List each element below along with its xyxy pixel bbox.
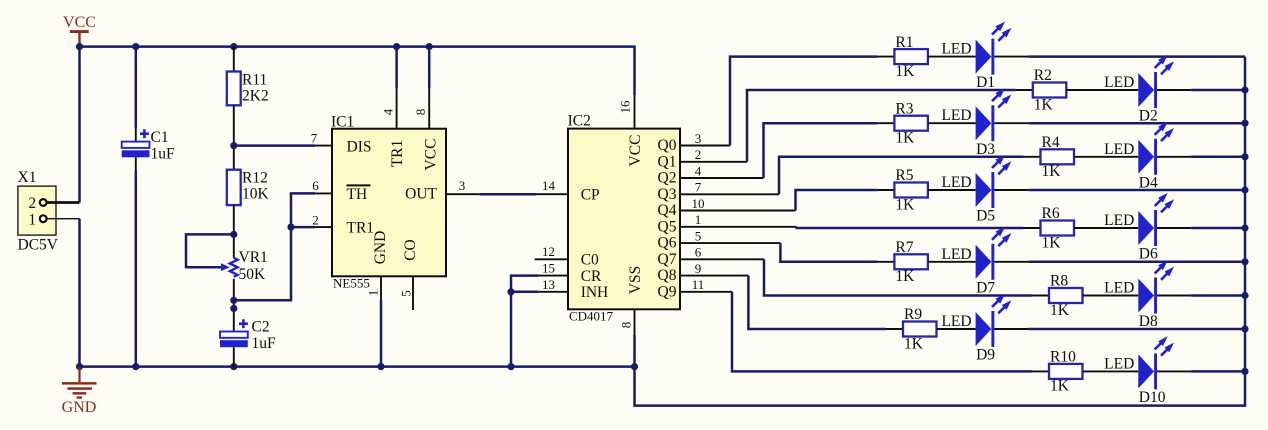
wire R3 net riser — [764, 123, 878, 178]
wire D1 cathode to right rail — [994, 56, 1028, 58]
svg-text:VR1: VR1 — [239, 249, 268, 266]
wire IC1 pin5 CO stub — [412, 276, 414, 310]
svg-text:GND: GND — [62, 399, 97, 416]
wire IC2 pin 10 (Q4) — [680, 210, 796, 212]
resistor R2 1K — [1033, 67, 1067, 113]
LED D10 — [1104, 336, 1174, 406]
wire IC2 pin 5 (Q6) — [680, 242, 780, 244]
wire VCC top rail — [80, 47, 635, 95]
svg-text:R9: R9 — [904, 306, 922, 323]
wire IC2 pin12 C0 stub — [535, 258, 568, 260]
svg-text:R11: R11 — [242, 71, 267, 88]
svg-text:CO: CO — [402, 239, 419, 261]
junction right rail row 9 — [1241, 325, 1248, 332]
svg-text:Q9: Q9 — [658, 283, 677, 300]
svg-text:9: 9 — [695, 261, 702, 276]
pin 1 of X1 — [40, 215, 47, 222]
svg-text:2K2: 2K2 — [242, 87, 269, 104]
svg-text:7: 7 — [695, 180, 702, 195]
potentiometer VR1 50K — [221, 249, 268, 283]
svg-text:1: 1 — [695, 212, 702, 227]
resistor R3 1K — [894, 100, 928, 146]
wire X1 pin1 down to ground rail — [78, 219, 81, 367]
resistor R12 10K — [227, 170, 270, 206]
svg-text:IC2: IC2 — [568, 113, 591, 130]
svg-text:LED: LED — [1104, 355, 1134, 372]
wire D10 cathode to right rail — [1157, 370, 1191, 372]
svg-text:LED: LED — [941, 41, 971, 58]
svg-text:R10: R10 — [1050, 349, 1076, 366]
wire IC2 pin 3 (Q0) — [680, 145, 730, 147]
wire X1 pin1 to GND rail — [47, 218, 80, 220]
junction pin8 top — [426, 43, 433, 50]
svg-text:3: 3 — [459, 178, 466, 193]
junction IC2 VSS pin — [631, 363, 638, 370]
svg-text:NE555: NE555 — [333, 275, 370, 290]
junction right rail row 5 — [1241, 186, 1248, 193]
wire R9 net riser — [748, 276, 886, 329]
LED D7 — [941, 227, 1011, 297]
resistor R9 1K — [903, 306, 937, 352]
wire R4 net riser — [779, 157, 1024, 195]
svg-text:R4: R4 — [1042, 134, 1060, 151]
wire TR node to IC1 pin2/pin6 — [234, 227, 315, 300]
junction pin4 top — [393, 43, 400, 50]
wire IC2 pin 4 (Q2) — [680, 177, 764, 179]
svg-text:Q0: Q0 — [658, 137, 677, 154]
wire R2 net riser — [747, 90, 1016, 162]
junction right rail row 10 — [1241, 368, 1248, 375]
svg-text:Q6: Q6 — [658, 235, 677, 252]
wire VR1 wiper loop — [186, 234, 234, 267]
svg-text:1K: 1K — [1050, 378, 1070, 395]
wire R9 to D9 — [937, 328, 976, 330]
junction CR/INH rail — [507, 363, 514, 370]
svg-text:X1: X1 — [18, 169, 37, 186]
wire R10 net riser — [732, 292, 1032, 372]
svg-text:3: 3 — [695, 131, 702, 146]
wire IC2 pin13 INH — [538, 291, 568, 293]
svg-text:13: 13 — [542, 277, 555, 292]
svg-text:1K: 1K — [895, 196, 915, 213]
svg-text:D9: D9 — [976, 347, 995, 364]
wire R4 to D4 — [1074, 156, 1138, 158]
wire IC2 pin15 CR — [538, 275, 568, 277]
svg-text:2: 2 — [695, 147, 702, 162]
wire R6 to D6 — [1074, 227, 1138, 229]
svg-text:2: 2 — [312, 212, 319, 227]
svg-text:50K: 50K — [239, 266, 267, 283]
svg-text:D7: D7 — [976, 279, 995, 296]
svg-text:LED: LED — [1104, 74, 1134, 91]
svg-text:15: 15 — [542, 261, 555, 276]
wire D7 cathode to right rail — [994, 261, 1028, 263]
junction TR node lower — [230, 305, 237, 312]
junction right rail row 4 — [1241, 153, 1248, 160]
wire D2 cathode to right rail — [1157, 89, 1191, 91]
svg-text:1K: 1K — [1050, 302, 1070, 319]
svg-text:R2: R2 — [1034, 67, 1052, 84]
wire IC2 pin 11 (Q9) — [680, 291, 732, 293]
svg-text:LED: LED — [1104, 212, 1134, 229]
wire D8 cathode to right rail — [1157, 295, 1191, 297]
svg-text:D5: D5 — [976, 208, 995, 225]
svg-text:1uF: 1uF — [151, 145, 176, 162]
wire D9 cathode to right rail — [994, 328, 1028, 330]
svg-text:1K: 1K — [1042, 163, 1062, 180]
LED D2 — [1104, 55, 1174, 125]
junction right rail row 2 — [1241, 86, 1248, 93]
svg-text:Q1: Q1 — [658, 153, 677, 170]
resistor R4 1K — [1041, 134, 1075, 180]
svg-text:1K: 1K — [904, 335, 924, 352]
wire VR1 to C2 — [233, 279, 235, 332]
svg-text:VCC: VCC — [63, 14, 96, 31]
svg-text:7: 7 — [311, 131, 318, 146]
svg-text:1K: 1K — [895, 268, 915, 285]
svg-text:TH: TH — [347, 186, 368, 203]
LED D1 — [941, 22, 1011, 92]
junction VCC left — [76, 43, 83, 50]
svg-text:R12: R12 — [242, 170, 268, 187]
wire R1 net riser — [730, 57, 877, 146]
svg-text:1K: 1K — [895, 63, 915, 80]
wire R7 net riser — [780, 243, 877, 262]
svg-text:VCC: VCC — [423, 139, 440, 171]
svg-text:LED: LED — [1104, 280, 1134, 297]
wire D3 cathode to right rail — [994, 122, 1028, 124]
svg-text:D10: D10 — [1139, 389, 1166, 406]
wire VCC left rail down to X1 pin2 — [78, 47, 81, 203]
svg-text:LED: LED — [941, 174, 971, 191]
wire IC2 pin 2 (Q1) — [680, 161, 747, 163]
resistor R7 1K — [894, 239, 928, 285]
wire R12 to VR1 — [233, 205, 235, 258]
svg-text:D3: D3 — [976, 141, 995, 158]
wire R11 to R12, node DIS — [233, 105, 235, 169]
svg-text:1: 1 — [28, 211, 36, 228]
LED D6 — [1104, 193, 1174, 263]
junction C2 bottom — [230, 363, 237, 370]
svg-text:16: 16 — [618, 100, 633, 114]
svg-text:Q7: Q7 — [658, 251, 677, 268]
svg-text:DIS: DIS — [347, 138, 372, 155]
wire IC1 pin4 to VCC rail — [395, 47, 398, 88]
svg-text:8: 8 — [413, 109, 428, 116]
svg-text:1K: 1K — [1042, 234, 1062, 251]
svg-text:C2: C2 — [252, 319, 270, 336]
svg-text:4: 4 — [695, 163, 702, 178]
resistor R8 1K — [1049, 273, 1083, 319]
junction R11 top — [230, 43, 237, 50]
svg-text:5: 5 — [399, 290, 414, 297]
svg-text:6: 6 — [695, 245, 702, 260]
svg-text:VCC: VCC — [627, 135, 644, 167]
wire GND bottom rail — [80, 365, 635, 368]
wire IC1 pin1 GND — [380, 276, 382, 300]
svg-text:C1: C1 — [151, 129, 169, 146]
wire IC2 pin8 VSS to ground rail — [634, 309, 636, 335]
svg-text:1K: 1K — [895, 130, 915, 147]
LED D9 — [941, 294, 1011, 364]
op-amp timer IC1 NE555 body — [331, 114, 446, 291]
wire R11 top lead — [233, 47, 235, 72]
counter IC2 CD4017 body — [568, 113, 680, 324]
svg-text:DC5V: DC5V — [18, 237, 59, 254]
svg-text:10: 10 — [692, 196, 705, 211]
svg-text:11: 11 — [692, 277, 705, 292]
resistor R1 1K — [894, 34, 928, 80]
svg-text:TR1: TR1 — [347, 220, 375, 237]
junction right rail row 6 — [1241, 224, 1248, 231]
connector X1 DC5V — [18, 169, 59, 254]
junction DIS node — [230, 142, 237, 149]
LED D4 — [1104, 122, 1174, 192]
wire R6 net riser — [797, 227, 1024, 228]
svg-text:5: 5 — [695, 229, 702, 244]
wire R3 to D3 — [928, 122, 976, 124]
junction IC1 GND pin — [377, 363, 384, 370]
svg-text:1uF: 1uF — [252, 335, 277, 352]
svg-text:R1: R1 — [895, 34, 913, 51]
junction right rail row 8 — [1241, 292, 1248, 299]
junction TR node upper — [230, 297, 237, 304]
svg-text:D6: D6 — [1139, 246, 1158, 263]
resistor R6 1K — [1041, 205, 1075, 251]
resistor R5 1K — [894, 167, 928, 213]
ground symbol GND — [62, 367, 97, 416]
svg-text:C0: C0 — [581, 252, 599, 269]
LED D3 — [941, 88, 1011, 158]
svg-text:R3: R3 — [895, 100, 913, 117]
svg-text:LED: LED — [941, 246, 971, 263]
wire IC2 pin 1 (Q5) — [680, 226, 797, 228]
wire TH branch to IC1 pin6 — [291, 193, 315, 227]
VCC power symbol — [63, 14, 96, 45]
junction CR/INH — [507, 288, 514, 295]
wire R8 to D8 — [1083, 295, 1139, 297]
svg-text:8: 8 — [618, 322, 633, 329]
svg-text:LED: LED — [1104, 141, 1134, 158]
LED D8 — [1104, 260, 1174, 330]
junction right rail row 3 — [1241, 120, 1248, 127]
wire D6 cathode to right rail — [1157, 227, 1191, 229]
wire LED return right rail — [635, 57, 1246, 406]
svg-text:CR: CR — [581, 268, 602, 285]
wire R2 to D2 — [1066, 89, 1138, 91]
svg-text:6: 6 — [312, 178, 319, 193]
junction TH/TR1 — [287, 224, 294, 231]
svg-text:CP: CP — [581, 187, 600, 204]
wire IC2 pin 7 (Q3) — [680, 193, 779, 195]
svg-text:D8: D8 — [1139, 313, 1158, 330]
svg-text:14: 14 — [542, 178, 556, 193]
svg-text:LED: LED — [941, 107, 971, 124]
wire pin16 stub — [634, 95, 636, 129]
svg-text:OUT: OUT — [405, 186, 437, 203]
svg-text:CD4017: CD4017 — [569, 308, 614, 323]
svg-text:INH: INH — [581, 284, 609, 301]
IC1 pin label TH (overline) — [347, 185, 371, 203]
svg-text:Q4: Q4 — [658, 202, 677, 219]
junction right rail row 7 — [1241, 258, 1248, 265]
svg-text:LED: LED — [941, 313, 971, 330]
svg-text:4: 4 — [381, 108, 396, 115]
resistor R10 1K — [1049, 349, 1083, 395]
wire R5 to D5 — [928, 189, 976, 191]
svg-text:D1: D1 — [976, 74, 995, 91]
svg-text:Q8: Q8 — [658, 267, 677, 284]
wire IC1 pin8 to VCC rail — [428, 47, 431, 88]
wire D5 cathode to right rail — [994, 189, 1028, 191]
svg-text:R6: R6 — [1042, 205, 1060, 222]
wire R7 to D7 — [928, 261, 976, 263]
wire D4 cathode to right rail — [1157, 156, 1191, 158]
svg-text:12: 12 — [542, 244, 555, 259]
LED D5 — [941, 155, 1011, 225]
wire R5 net riser — [796, 190, 878, 211]
wire IC2 pin 6 (Q7) — [680, 258, 764, 260]
junction C1 bottom — [132, 363, 139, 370]
wire X1 pin2 to VCC rail — [47, 201, 80, 204]
wire DIS node to IC1 pin7 — [234, 144, 315, 147]
resistor R11 2K2 — [227, 71, 269, 105]
wire IC2 pin 9 (Q8) — [680, 275, 748, 277]
wire CR/INH to ground rail — [511, 276, 538, 367]
wire OUT pin3 to CP pin14 — [446, 193, 480, 195]
svg-text:Q2: Q2 — [658, 170, 677, 187]
wire C1 top lead — [135, 47, 138, 128]
svg-text:1: 1 — [366, 290, 381, 297]
capacitor C1 1uF — [122, 129, 175, 163]
svg-text:10K: 10K — [242, 186, 270, 203]
pin 2 of X1 — [40, 199, 47, 206]
junction VR1 wiper loop top — [230, 231, 237, 238]
wire R1 to D1 — [928, 56, 976, 58]
svg-text:GND: GND — [372, 231, 389, 265]
svg-text:TR1: TR1 — [389, 140, 406, 168]
wire R8 net riser — [764, 259, 1032, 295]
svg-text:Q5: Q5 — [658, 218, 677, 235]
junction GND left — [76, 363, 83, 370]
svg-text:VSS: VSS — [627, 266, 644, 294]
svg-text:R5: R5 — [895, 167, 913, 184]
svg-text:R8: R8 — [1050, 273, 1068, 290]
wire C1 bottom lead — [135, 157, 137, 171]
wire C2 bottom lead — [233, 347, 235, 366]
svg-text:Q3: Q3 — [658, 186, 677, 203]
svg-text:R7: R7 — [895, 239, 913, 256]
junction C1 top — [132, 43, 139, 50]
capacitor C2 1uF — [220, 319, 276, 353]
wire R10 to D10 — [1083, 370, 1139, 372]
svg-text:1K: 1K — [1034, 96, 1054, 113]
svg-text:2: 2 — [28, 195, 36, 212]
